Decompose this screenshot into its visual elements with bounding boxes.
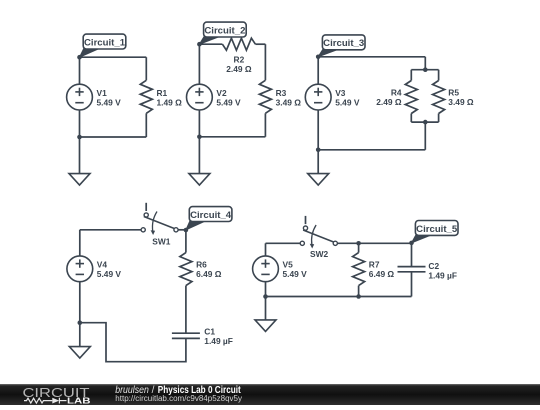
wire c3 right lower xyxy=(424,122,426,150)
svg-text:Circuit_5: Circuit_5 xyxy=(416,224,458,235)
wire c3 parallel bottom bar xyxy=(411,121,438,123)
wire C2 bottom lead xyxy=(411,272,413,297)
resistor R7 xyxy=(353,253,365,286)
switch SW2 blade xyxy=(303,230,334,242)
wire c1 ground stem xyxy=(79,137,81,174)
svg-text:5.49 V: 5.49 V xyxy=(97,98,122,108)
terminal SW1 common xyxy=(174,228,178,232)
svg-text:1.49 Ω: 1.49 Ω xyxy=(157,98,183,108)
footer bar xyxy=(0,384,540,405)
wire c4 bottom path xyxy=(80,323,186,362)
terminal SW1 throw up xyxy=(144,213,148,217)
svg-text:3.49 Ω: 3.49 Ω xyxy=(276,98,302,108)
svg-text:5.49 V: 5.49 V xyxy=(283,269,308,279)
voltage source V4 xyxy=(67,256,93,282)
wire c1 left upper xyxy=(79,57,81,84)
resistor R4 xyxy=(405,81,417,114)
ground c3 xyxy=(308,174,329,186)
label R7 value xyxy=(369,260,395,280)
svg-text:R3: R3 xyxy=(276,88,287,98)
wire c5 top right xyxy=(337,242,411,244)
switch SW1 arrow xyxy=(151,212,157,236)
flag Circuit_3 xyxy=(318,35,365,57)
node c5 top right junction xyxy=(409,241,414,246)
node c1 bottom junction xyxy=(77,135,82,140)
flag Circuit_1 xyxy=(80,34,126,57)
wire R6 top lead xyxy=(185,230,187,253)
svg-text:Circuit_2: Circuit_2 xyxy=(204,25,245,36)
resistor R1 xyxy=(140,80,152,113)
svg-text:R5: R5 xyxy=(448,87,459,97)
label R3 value xyxy=(276,88,302,108)
resistor R6 xyxy=(180,253,192,286)
wire c3 ground stem xyxy=(317,150,319,174)
wire R1 top lead xyxy=(145,57,147,80)
label V2 value xyxy=(216,88,241,108)
node c2 top junction xyxy=(197,42,202,47)
logo resistor-diode symbol xyxy=(24,398,67,404)
switch SW1 xyxy=(0,0,1,1)
svg-text:R7: R7 xyxy=(369,260,380,270)
wire c4 left upper xyxy=(79,230,81,256)
svg-text:1.49 µF: 1.49 µF xyxy=(428,271,457,281)
wire R7 bottom lead xyxy=(358,286,360,297)
svg-text:V4: V4 xyxy=(97,260,108,270)
voltage source V3 xyxy=(305,84,331,110)
wire c3 top xyxy=(318,56,425,58)
svg-text:6.49 Ω: 6.49 Ω xyxy=(369,269,395,279)
flag Circuit_4 xyxy=(186,207,232,230)
wire R7 top lead xyxy=(358,243,360,252)
wire R4 top lead xyxy=(410,70,412,81)
wire R1 bottom lead xyxy=(145,113,147,137)
svg-text:5.49 V: 5.49 V xyxy=(216,98,241,108)
wire c2 bottom xyxy=(199,136,265,138)
wire c1 top xyxy=(80,56,147,58)
ground c4 xyxy=(69,347,90,359)
svg-text:V1: V1 xyxy=(97,88,108,98)
label V1 value xyxy=(97,88,122,108)
svg-text:C1: C1 xyxy=(204,327,215,337)
label R4 value xyxy=(376,87,402,107)
label V4 value xyxy=(97,260,122,280)
switch SW1 blade xyxy=(144,217,175,229)
wire c5 ground stem xyxy=(265,297,267,320)
label C2 value xyxy=(428,261,457,281)
node c2 bottom junction xyxy=(197,135,202,140)
svg-text:Circuit_3: Circuit_3 xyxy=(323,38,364,49)
wire c3 parallel top bar xyxy=(411,69,438,71)
label R2 value xyxy=(226,54,252,74)
svg-text:3.49 Ω: 3.49 Ω xyxy=(448,97,474,107)
wire C2 top lead xyxy=(411,243,413,266)
wire c5 left upper xyxy=(265,243,267,256)
wire c3 left upper xyxy=(317,57,319,85)
wire R3 top lead xyxy=(264,44,266,80)
wire c3 right drop xyxy=(424,57,426,70)
label V3 value xyxy=(335,88,360,108)
wire C1 to R6 xyxy=(185,286,187,334)
wire R4 bottom lead xyxy=(410,114,412,123)
terminal SW2 common xyxy=(333,241,337,245)
wire c2 ground stem xyxy=(198,137,200,174)
svg-text:2.49 Ω: 2.49 Ω xyxy=(226,64,252,74)
svg-text:1.49 µF: 1.49 µF xyxy=(204,336,233,346)
svg-text:2.49 Ω: 2.49 Ω xyxy=(376,97,402,107)
label R1 value xyxy=(157,88,183,108)
svg-text:R4: R4 xyxy=(391,87,402,97)
wire R3 bottom lead xyxy=(264,113,266,137)
wire R5 bottom lead xyxy=(438,114,440,123)
switch SW2 arrow xyxy=(310,225,316,249)
svg-text:SW2: SW2 xyxy=(310,249,328,259)
wire c1 bottom xyxy=(80,136,147,138)
wire c2 left upper xyxy=(198,44,200,84)
wire c5 left lower xyxy=(265,282,267,297)
footer title text xyxy=(115,385,241,396)
terminal SW2 throw left xyxy=(300,241,304,245)
label R5 value xyxy=(448,87,474,107)
voltage source V1 xyxy=(67,84,93,110)
ground c5 xyxy=(255,320,276,332)
svg-text:http://circuitlab.com/c9v84p5z: http://circuitlab.com/c9v84p5z8qv5y xyxy=(115,394,242,403)
svg-text:V3: V3 xyxy=(335,88,346,98)
wire c2 top right xyxy=(255,43,265,45)
wire c4 ground stem xyxy=(79,323,81,347)
wire R5 top lead xyxy=(438,70,440,81)
svg-text:C2: C2 xyxy=(428,261,439,271)
node c5 bottom junction xyxy=(263,294,268,299)
wire c5 bottom xyxy=(266,296,412,298)
capacitor C1 xyxy=(172,333,200,338)
label C1 value xyxy=(204,327,233,347)
svg-text:V5: V5 xyxy=(283,260,294,270)
flag Circuit_2 xyxy=(199,22,246,44)
svg-text:5.49 V: 5.49 V xyxy=(335,98,360,108)
node c3 bottom junction xyxy=(316,148,321,153)
flag Circuit_5 xyxy=(412,221,459,243)
resistor R5 xyxy=(433,81,445,114)
resistor R2 xyxy=(222,38,255,50)
svg-text:R2: R2 xyxy=(234,54,245,64)
svg-text:R1: R1 xyxy=(157,88,168,98)
node c3 parallel bottom xyxy=(423,120,428,125)
wire c5 top left xyxy=(266,242,301,244)
wire c3 bottom xyxy=(318,149,425,151)
node c5 R7 top xyxy=(356,241,361,246)
ground c2 xyxy=(189,174,210,186)
node c4 bottom junction xyxy=(78,320,83,325)
svg-text:Circuit_1: Circuit_1 xyxy=(84,37,126,48)
wire SW1 common to node xyxy=(178,229,186,231)
capacitor C2 xyxy=(398,267,426,272)
svg-text:5.49 V: 5.49 V xyxy=(97,269,122,279)
voltage source V2 xyxy=(187,84,213,110)
resistor R3 xyxy=(259,80,271,113)
voltage source V5 xyxy=(253,256,279,282)
svg-text:V2: V2 xyxy=(216,88,227,98)
node c1 top junction xyxy=(77,55,82,60)
wire c2 top left xyxy=(199,43,222,45)
node c3 top junction xyxy=(316,55,321,60)
node c4 top junction xyxy=(184,228,189,233)
wire c2 left lower xyxy=(198,110,200,137)
wire c1 left lower xyxy=(79,110,81,137)
switch SW2 xyxy=(0,0,1,1)
wire c3 left lower xyxy=(317,110,319,150)
label R6 value xyxy=(196,260,222,280)
svg-text:SW1: SW1 xyxy=(152,237,170,247)
node c3 parallel top xyxy=(423,67,428,72)
wire SW2 upper stub xyxy=(305,216,307,224)
ground c1 xyxy=(69,174,90,186)
node c5 R7 bottom xyxy=(356,294,361,299)
svg-text:Circuit_4: Circuit_4 xyxy=(190,210,232,221)
svg-text:R6: R6 xyxy=(196,260,207,270)
wire SW1 upper stub xyxy=(145,203,147,211)
terminal SW2 throw up xyxy=(303,226,307,230)
svg-text:LAB: LAB xyxy=(67,396,91,405)
label V5 value xyxy=(283,260,308,280)
wire c4 left lower xyxy=(79,282,81,323)
svg-text:6.49 Ω: 6.49 Ω xyxy=(196,269,222,279)
terminal SW1 throw left xyxy=(141,228,145,232)
wire c4 top left xyxy=(80,229,141,231)
